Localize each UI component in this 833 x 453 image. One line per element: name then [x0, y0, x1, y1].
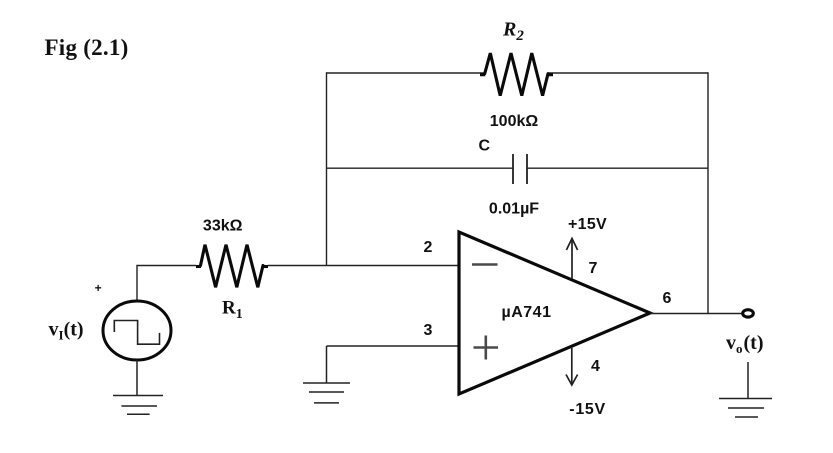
- ground (source): [113, 360, 163, 414]
- svg-text:4: 4: [591, 358, 600, 375]
- svg-text:0.01µF: 0.01µF: [489, 201, 539, 218]
- wire non-inverting input (pin 3): [327, 345, 460, 347]
- svg-text:6: 6: [663, 290, 672, 307]
- wire top-right segment: [548, 72, 708, 74]
- resistor R1: [201, 245, 264, 288]
- square-wave symbol: [114, 321, 159, 345]
- +V supply arrow (pin 7): [566, 239, 577, 280]
- non-inverting input plus mark: [474, 336, 499, 360]
- wire capacitor right: [527, 167, 708, 169]
- svg-text:7: 7: [589, 260, 598, 277]
- wire top-left segment: [327, 72, 485, 74]
- wire output (pin 6): [650, 313, 742, 315]
- svg-text:C: C: [479, 138, 491, 155]
- svg-text:Fig (2.1): Fig (2.1): [45, 35, 129, 60]
- wire left rail: [326, 72, 328, 265]
- ground (output): [719, 362, 772, 417]
- svg-text:33kΩ: 33kΩ: [203, 218, 243, 235]
- svg-text:+15V: +15V: [568, 216, 607, 233]
- inverting input minus mark: [472, 263, 498, 266]
- op-amp U1 µA741: [459, 232, 650, 394]
- svg-text:vo(t): vo(t): [726, 332, 763, 356]
- -V supply arrow (pin 4): [566, 347, 578, 385]
- resistor R2: [485, 53, 548, 96]
- svg-text:+: +: [95, 281, 102, 295]
- svg-text:vI(t): vI(t): [49, 319, 84, 343]
- svg-text:3: 3: [424, 322, 433, 339]
- wire capacitor left: [327, 167, 514, 169]
- ground (pin 3): [303, 346, 350, 403]
- svg-text:µA741: µA741: [502, 304, 552, 321]
- capacitor C: [513, 154, 527, 184]
- output terminal: [743, 310, 754, 317]
- svg-text:2: 2: [424, 239, 433, 256]
- wire right rail: [707, 72, 709, 313]
- wire inverting input (pin 2): [268, 265, 459, 267]
- svg-text:-15V: -15V: [569, 401, 606, 418]
- source vI(t): [103, 301, 171, 360]
- wire source to R1: [137, 266, 196, 302]
- svg-text:100kΩ: 100kΩ: [490, 113, 539, 130]
